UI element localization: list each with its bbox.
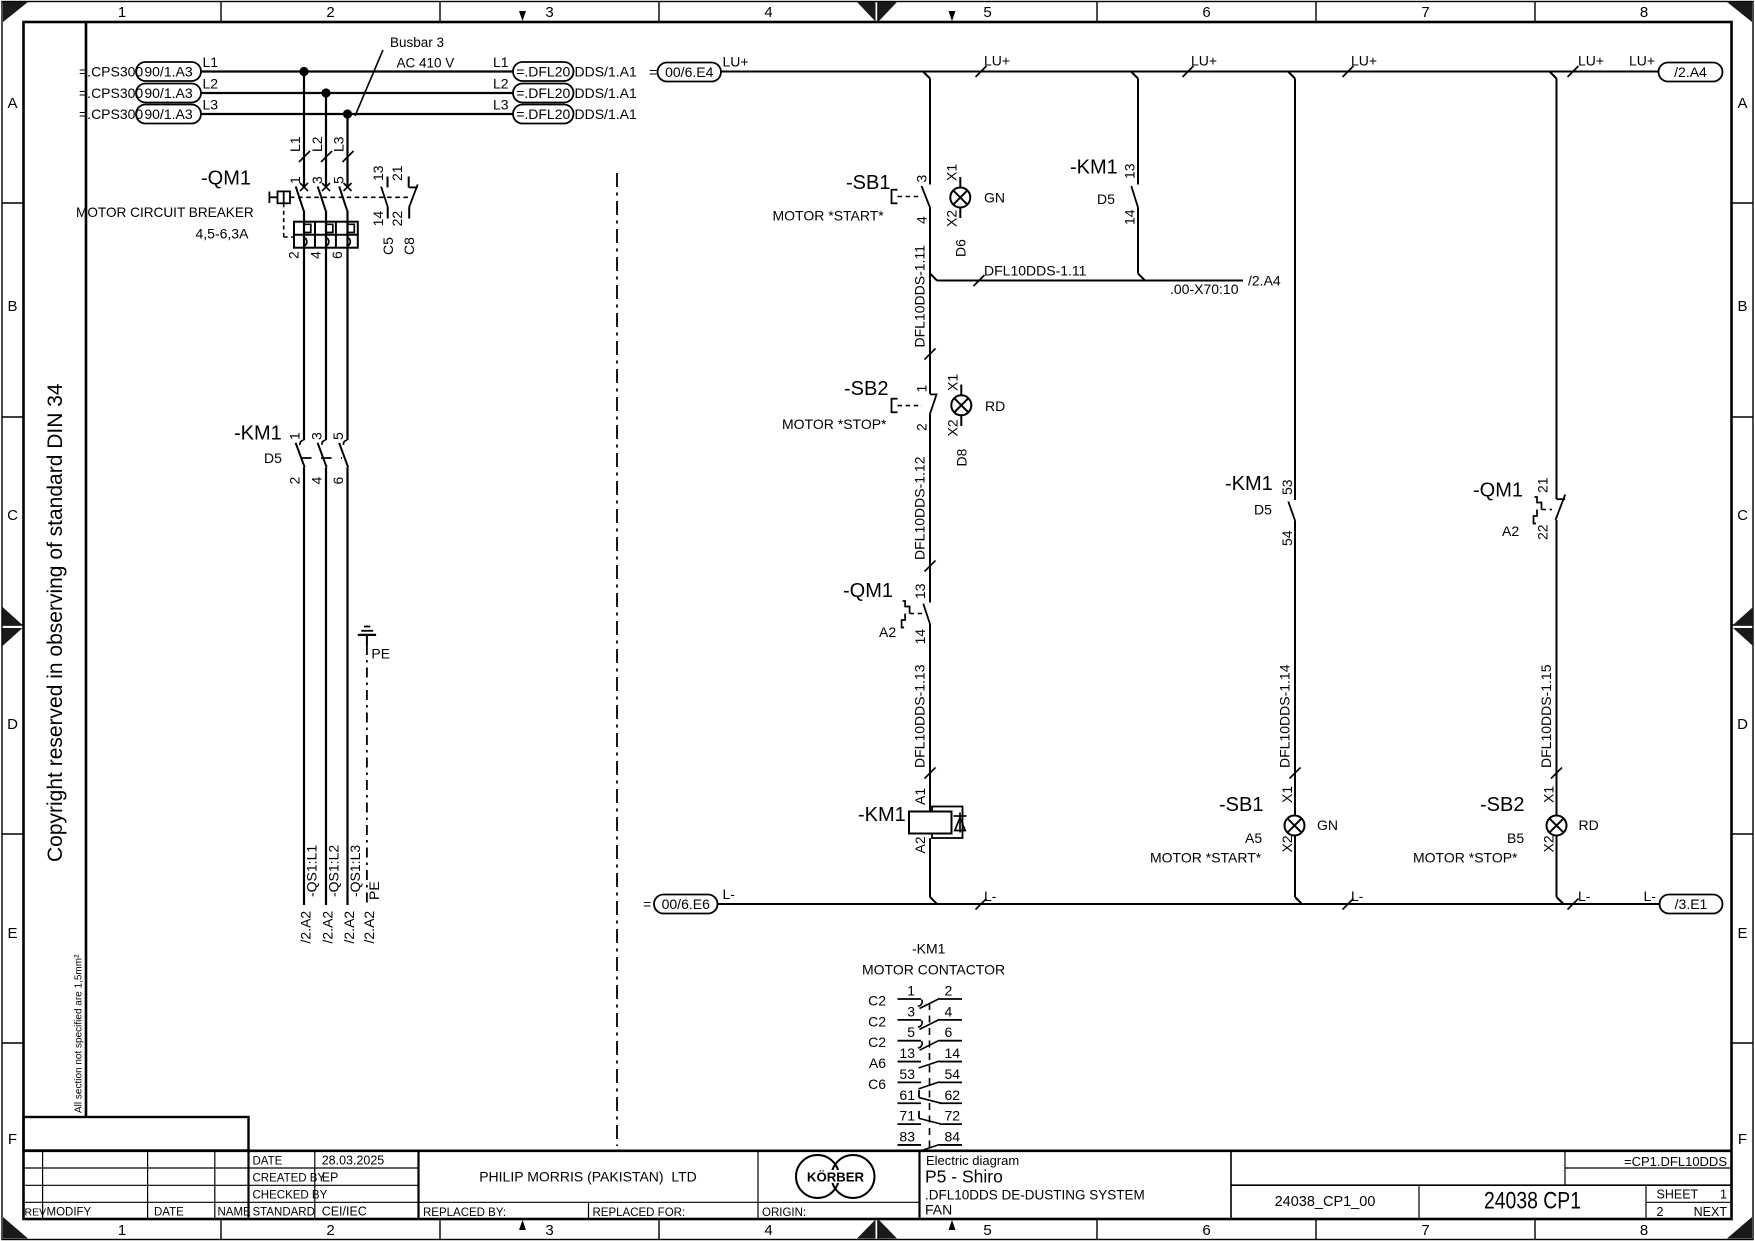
svg-text:L1: L1 bbox=[493, 54, 509, 70]
svg-text:6: 6 bbox=[945, 1024, 953, 1040]
wire DFL10DDS-1.13 rail segment bbox=[912, 624, 936, 812]
svg-text:21: 21 bbox=[1535, 477, 1551, 493]
svg-text:PE: PE bbox=[371, 646, 390, 662]
PE earth symbol bbox=[358, 627, 390, 944]
svg-text:L-: L- bbox=[984, 888, 997, 904]
svg-text:X1: X1 bbox=[944, 164, 960, 181]
svg-text:C2: C2 bbox=[868, 993, 886, 1009]
KM1 main contact 5-6 bbox=[330, 248, 348, 905]
svg-text:8: 8 bbox=[1640, 4, 1648, 21]
svg-text:DFL10DDS-1.12: DFL10DDS-1.12 bbox=[912, 456, 928, 560]
svg-text:54: 54 bbox=[1279, 530, 1295, 546]
svg-text:X2: X2 bbox=[944, 210, 960, 227]
svg-text:X2: X2 bbox=[1541, 835, 1557, 852]
motor circuit breaker QM1 labels bbox=[76, 168, 254, 242]
QM1 pole 3-4 bbox=[308, 176, 331, 259]
svg-text:D5: D5 bbox=[264, 450, 282, 466]
svg-text:14: 14 bbox=[1122, 209, 1138, 225]
svg-text:6: 6 bbox=[329, 251, 345, 259]
svg-text:STANDARD: STANDARD bbox=[253, 1206, 315, 1218]
svg-text:-QM1: -QM1 bbox=[1473, 480, 1523, 502]
svg-text:MOTOR *STOP*: MOTOR *STOP* bbox=[1413, 850, 1518, 866]
svg-text:L-: L- bbox=[1578, 888, 1591, 904]
outgoing reference =.DFL20DDS/1.A1 L3 bbox=[493, 97, 637, 124]
QM1 aux contact 13-14 (control) bbox=[843, 580, 930, 645]
svg-text:DDS/1.A1: DDS/1.A1 bbox=[575, 85, 637, 101]
svg-text:4: 4 bbox=[914, 216, 930, 224]
svg-text:53: 53 bbox=[1279, 479, 1295, 495]
svg-text:MOTOR CONTACTOR: MOTOR CONTACTOR bbox=[862, 962, 1005, 978]
svg-text:-SB2: -SB2 bbox=[844, 378, 888, 400]
destination reference /3.E1 bbox=[1660, 895, 1723, 914]
svg-text:83: 83 bbox=[899, 1128, 915, 1144]
svg-text:Busbar 3: Busbar 3 bbox=[390, 35, 444, 50]
svg-text:2: 2 bbox=[945, 983, 953, 999]
svg-text:53: 53 bbox=[899, 1066, 915, 1082]
svg-text:EP: EP bbox=[322, 1171, 339, 1185]
svg-text:PE: PE bbox=[366, 881, 382, 900]
svg-text:L-: L- bbox=[723, 886, 736, 902]
svg-text:90/1.A3: 90/1.A3 bbox=[144, 85, 192, 101]
svg-text:A2: A2 bbox=[1502, 523, 1519, 539]
svg-text:24038 CP1: 24038 CP1 bbox=[1484, 1188, 1581, 1215]
svg-text:CREATED BY: CREATED BY bbox=[253, 1173, 326, 1185]
busbar group leader bbox=[355, 35, 454, 116]
copyright side text bbox=[24, 22, 249, 1151]
terminal label -QS1:L3 bbox=[341, 845, 363, 944]
svg-text:2: 2 bbox=[914, 423, 930, 431]
svg-text:L2: L2 bbox=[493, 76, 509, 92]
svg-text:=.CPS300: =.CPS300 bbox=[79, 106, 143, 122]
wire phase L3 drop bbox=[331, 114, 354, 186]
svg-text:MOTOR *START*: MOTOR *START* bbox=[773, 208, 885, 224]
svg-text:/2.A4: /2.A4 bbox=[1674, 64, 1707, 80]
svg-text:C2: C2 bbox=[868, 1013, 886, 1029]
svg-text:13: 13 bbox=[370, 165, 386, 181]
svg-text:C: C bbox=[1737, 507, 1748, 524]
svg-text:=CP1.DFL10DDS: =CP1.DFL10DDS bbox=[1624, 1154, 1727, 1169]
svg-text:DDS/1.A1: DDS/1.A1 bbox=[575, 64, 637, 80]
svg-text:4: 4 bbox=[764, 4, 772, 21]
svg-text:B5: B5 bbox=[1507, 830, 1524, 846]
svg-text:=.CPS300: =.CPS300 bbox=[79, 64, 143, 80]
svg-text:-KM1: -KM1 bbox=[1070, 157, 1118, 179]
terminal label -QS1:L2 bbox=[319, 845, 341, 944]
svg-text:L-: L- bbox=[1351, 888, 1364, 904]
feeder reference =.CPS300 L1 bbox=[79, 54, 218, 81]
wire DFL10DDS-1.12 rail segment bbox=[912, 414, 936, 602]
svg-text:7: 7 bbox=[1421, 1222, 1429, 1239]
svg-text:3: 3 bbox=[914, 175, 930, 183]
svg-text:DFL10DDS-1.14: DFL10DDS-1.14 bbox=[1277, 664, 1293, 768]
feeder reference =.CPS300 L3 bbox=[79, 97, 218, 124]
svg-text:5: 5 bbox=[330, 432, 346, 440]
svg-text:LU+: LU+ bbox=[1578, 53, 1604, 69]
svg-text:=.DFL20: =.DFL20 bbox=[516, 106, 570, 122]
svg-text:-QM1: -QM1 bbox=[843, 580, 893, 602]
svg-text:L2: L2 bbox=[203, 76, 219, 92]
svg-text:-QS1:L3: -QS1:L3 bbox=[347, 845, 363, 897]
svg-text:4: 4 bbox=[309, 477, 325, 485]
supply reference 00/6.E4 bbox=[649, 54, 749, 82]
svg-text:=.CPS300: =.CPS300 bbox=[79, 85, 143, 101]
svg-text:X1: X1 bbox=[1279, 786, 1295, 803]
svg-text:4: 4 bbox=[764, 1222, 772, 1239]
svg-text:F: F bbox=[8, 1131, 17, 1148]
svg-text:LU+: LU+ bbox=[1191, 53, 1217, 69]
svg-text:L1: L1 bbox=[287, 136, 303, 152]
title block bbox=[24, 1151, 1732, 1219]
terminal label -QS1:L1 bbox=[297, 845, 319, 944]
svg-text:72: 72 bbox=[945, 1108, 961, 1124]
KM1 main contact 3-4 bbox=[309, 248, 327, 905]
wire rail 3 top bbox=[1288, 72, 1295, 501]
svg-text:C6: C6 bbox=[868, 1076, 886, 1092]
outgoing reference =.DFL20DDS/1.A1 L2 bbox=[493, 76, 637, 103]
svg-text:L3: L3 bbox=[331, 136, 347, 152]
svg-text:-SB1: -SB1 bbox=[846, 172, 890, 194]
svg-text:FAN: FAN bbox=[925, 1202, 952, 1218]
svg-text:1: 1 bbox=[118, 1222, 126, 1239]
wire DFL10DDS-1.11 horizontal bbox=[930, 263, 1281, 298]
svg-text:X2: X2 bbox=[945, 419, 961, 436]
svg-text:5: 5 bbox=[907, 1024, 915, 1040]
node dot L3 bbox=[343, 109, 352, 118]
svg-text:-KM1: -KM1 bbox=[1225, 473, 1273, 495]
svg-text:MOTOR CIRCUIT BREAKER: MOTOR CIRCUIT BREAKER bbox=[76, 205, 254, 220]
svg-text:-SB1: -SB1 bbox=[1219, 794, 1263, 816]
svg-text:-QM1: -QM1 bbox=[201, 168, 251, 190]
svg-text:2: 2 bbox=[286, 251, 302, 259]
svg-text:8: 8 bbox=[1640, 1222, 1648, 1239]
svg-text:5: 5 bbox=[983, 4, 991, 21]
svg-text:RD: RD bbox=[1579, 817, 1599, 833]
svg-text:L-: L- bbox=[1644, 888, 1657, 904]
wire phase L1 drop bbox=[287, 72, 310, 187]
svg-text:13: 13 bbox=[899, 1045, 915, 1061]
svg-text:A: A bbox=[7, 95, 17, 112]
svg-text:L3: L3 bbox=[493, 97, 509, 113]
wire DFL10DDS-1.15 rail segment bbox=[1538, 520, 1562, 816]
QM1 aux contact 13-14 bbox=[370, 165, 396, 255]
outgoing reference =.DFL20DDS/1.A1 L1 bbox=[493, 54, 637, 81]
svg-text:7: 7 bbox=[1421, 4, 1429, 21]
svg-text:71: 71 bbox=[899, 1108, 915, 1124]
svg-text:CEI/IEC: CEI/IEC bbox=[322, 1204, 367, 1218]
svg-text:21: 21 bbox=[389, 165, 405, 181]
svg-text:Copyright reserved in observin: Copyright reserved in observing of stand… bbox=[44, 383, 67, 862]
svg-text:00/6.E4: 00/6.E4 bbox=[665, 64, 713, 80]
svg-text:=.DFL20: =.DFL20 bbox=[516, 64, 570, 80]
svg-text:D5: D5 bbox=[1254, 502, 1272, 518]
svg-text:B: B bbox=[1737, 298, 1747, 315]
svg-text:LU+: LU+ bbox=[723, 54, 749, 70]
svg-text:DFL10DDS-1.11: DFL10DDS-1.11 bbox=[912, 245, 928, 348]
svg-text:NAME: NAME bbox=[218, 1206, 252, 1218]
svg-text:2: 2 bbox=[326, 1222, 334, 1239]
wire rail 1 top bbox=[923, 72, 930, 185]
wire LU+ bbox=[721, 53, 1659, 78]
svg-text:C2: C2 bbox=[868, 1034, 886, 1050]
QM1 pole 1-2 bbox=[286, 176, 309, 259]
svg-text:/2.A2: /2.A2 bbox=[319, 911, 335, 944]
svg-text:2: 2 bbox=[1657, 1205, 1664, 1219]
svg-text:REPLACED BY:: REPLACED BY: bbox=[423, 1207, 506, 1219]
svg-text:2: 2 bbox=[326, 4, 334, 21]
svg-text:AC 410 V: AC 410 V bbox=[397, 56, 455, 71]
svg-text:/2.A2: /2.A2 bbox=[297, 911, 313, 944]
svg-text:F: F bbox=[1738, 1131, 1747, 1148]
svg-text:NEXT: NEXT bbox=[1694, 1205, 1728, 1219]
svg-text:-KM1: -KM1 bbox=[912, 941, 946, 957]
svg-text:3: 3 bbox=[907, 1003, 915, 1019]
svg-text:DATE: DATE bbox=[154, 1206, 184, 1218]
svg-text:/3.E1: /3.E1 bbox=[1675, 896, 1708, 912]
svg-text:-QS1:L2: -QS1:L2 bbox=[325, 845, 341, 897]
indicator lamp RD at SB2 bbox=[945, 374, 1006, 467]
title block right bbox=[920, 1151, 1732, 1219]
svg-text:L3: L3 bbox=[203, 97, 219, 113]
svg-text:A2: A2 bbox=[912, 836, 928, 853]
indicator lamp SB1 GN bbox=[1150, 786, 1338, 897]
svg-text:22: 22 bbox=[389, 211, 405, 227]
svg-text:KÖRBER: KÖRBER bbox=[807, 1170, 865, 1185]
svg-text:00/6.E6: 00/6.E6 bbox=[662, 896, 710, 912]
svg-text:MOTOR *STOP*: MOTOR *STOP* bbox=[782, 416, 887, 432]
svg-text:/2.A2: /2.A2 bbox=[341, 911, 357, 944]
svg-text:DFL10DDS-1.15: DFL10DDS-1.15 bbox=[1538, 664, 1554, 768]
svg-text:GN: GN bbox=[984, 190, 1005, 206]
svg-text:4: 4 bbox=[308, 251, 324, 259]
svg-text:LU+: LU+ bbox=[1351, 53, 1377, 69]
contactor coil KM1 bbox=[858, 788, 967, 897]
wire DFL10DDS-1.11 rail segment bbox=[912, 208, 936, 395]
svg-text:90/1.A3: 90/1.A3 bbox=[144, 64, 192, 80]
svg-text:B: B bbox=[7, 298, 17, 315]
svg-text:13: 13 bbox=[1122, 163, 1138, 179]
svg-text:6: 6 bbox=[330, 477, 346, 485]
svg-text:1: 1 bbox=[287, 432, 303, 440]
svg-text:62: 62 bbox=[945, 1087, 961, 1103]
svg-text:CHECKED BY: CHECKED BY bbox=[253, 1190, 328, 1202]
svg-text:ORIGIN:: ORIGIN: bbox=[762, 1207, 806, 1219]
svg-text:X1: X1 bbox=[1541, 786, 1557, 803]
svg-text:MOTOR *START*: MOTOR *START* bbox=[1150, 850, 1262, 866]
wire phase L2 drop bbox=[309, 93, 332, 186]
svg-text:MODIFY: MODIFY bbox=[47, 1206, 92, 1218]
svg-text:A5: A5 bbox=[1245, 830, 1262, 846]
svg-text:1: 1 bbox=[118, 4, 126, 21]
svg-text:L1: L1 bbox=[203, 54, 219, 70]
svg-text:A2: A2 bbox=[879, 624, 896, 640]
QM1 aux contact 21-22 bbox=[389, 165, 418, 255]
svg-text:PHILIP MORRIS (PAKISTAN) LTD: PHILIP MORRIS (PAKISTAN) LTD bbox=[479, 1169, 697, 1185]
svg-text:4,5-6,3A: 4,5-6,3A bbox=[196, 226, 250, 242]
svg-text:84: 84 bbox=[945, 1128, 961, 1144]
KM1 mechanical link dashes bbox=[301, 457, 342, 459]
svg-text:C5: C5 bbox=[380, 237, 396, 255]
svg-text:DFL10DDS-1.11: DFL10DDS-1.11 bbox=[984, 263, 1087, 279]
svg-text:14: 14 bbox=[945, 1045, 961, 1061]
svg-text:REPLACED FOR:: REPLACED FOR: bbox=[593, 1207, 686, 1219]
svg-text:3: 3 bbox=[545, 1222, 553, 1239]
svg-text:-KM1: -KM1 bbox=[234, 423, 282, 445]
svg-text:14: 14 bbox=[912, 629, 928, 645]
svg-text:6: 6 bbox=[1202, 1222, 1210, 1239]
node dot L2 bbox=[321, 88, 330, 97]
KM1 aux contact 53-54 bbox=[1225, 473, 1295, 546]
svg-text:A6: A6 bbox=[869, 1055, 886, 1071]
svg-text:LU+: LU+ bbox=[984, 53, 1010, 69]
svg-text:C: C bbox=[7, 507, 18, 524]
wire rail 2 bbox=[1131, 72, 1138, 185]
busbar wire L3 bbox=[201, 113, 513, 115]
svg-text:.DFL10DDS DE-DUSTING SYSTEM: .DFL10DDS DE-DUSTING SYSTEM bbox=[925, 1188, 1145, 1203]
supply reference 00/6.E6 bbox=[643, 886, 735, 914]
svg-text:DATE: DATE bbox=[253, 1155, 283, 1167]
svg-text:5: 5 bbox=[983, 1222, 991, 1239]
contactor KM1 main contacts labels bbox=[234, 423, 282, 467]
indicator lamp GN at SB1 bbox=[944, 164, 1005, 257]
svg-text:E: E bbox=[1737, 925, 1747, 942]
svg-text:P5 - Shiro: P5 - Shiro bbox=[925, 1167, 1003, 1187]
wire DFL10DDS-1.14 rail segment bbox=[1277, 521, 1301, 816]
svg-text:24038_CP1_00: 24038_CP1_00 bbox=[1275, 1194, 1376, 1210]
busbar wire L1 bbox=[201, 70, 513, 72]
svg-text:X1: X1 bbox=[945, 374, 961, 391]
svg-text:E: E bbox=[7, 925, 17, 942]
svg-text:C8: C8 bbox=[401, 237, 417, 255]
svg-text:D8: D8 bbox=[954, 448, 970, 466]
svg-text:/2.A2: /2.A2 bbox=[361, 911, 377, 944]
svg-text:61: 61 bbox=[899, 1087, 915, 1103]
busbar wire L2 bbox=[201, 92, 513, 94]
destination reference /2.A4 bbox=[1659, 63, 1723, 82]
svg-text:54: 54 bbox=[945, 1066, 961, 1082]
svg-text:=: = bbox=[643, 896, 651, 912]
svg-text:RD: RD bbox=[985, 398, 1005, 414]
svg-text:1: 1 bbox=[907, 983, 915, 999]
svg-text:28.03.2025: 28.03.2025 bbox=[322, 1153, 385, 1167]
svg-text:DFL10DDS-1.13: DFL10DDS-1.13 bbox=[912, 664, 928, 768]
svg-text:SHEET: SHEET bbox=[1657, 1188, 1699, 1202]
section separator line bbox=[616, 173, 618, 1146]
QM1 pole 5-6 bbox=[329, 176, 352, 259]
feeder reference =.CPS300 L2 bbox=[79, 76, 218, 103]
contactor KM1 contact table bbox=[862, 941, 1005, 1152]
QM1 test button bbox=[269, 191, 409, 237]
wire rail 4 top bbox=[1550, 72, 1557, 500]
svg-text:=.DFL20: =.DFL20 bbox=[516, 85, 570, 101]
QM1 aux contact 21-22 (control) bbox=[1473, 477, 1565, 540]
KM1 main contact 1-2 bbox=[287, 248, 305, 905]
svg-text:All section not specified are: All section not specified are 1,5mm² bbox=[74, 954, 85, 1113]
svg-text:1: 1 bbox=[914, 385, 930, 393]
svg-text:D5: D5 bbox=[1097, 191, 1115, 207]
svg-text:GN: GN bbox=[1317, 817, 1338, 833]
svg-text:LU+: LU+ bbox=[1629, 53, 1655, 69]
KM1 aux contact 13-14 (seal-in) bbox=[1070, 157, 1138, 274]
node dot L1 bbox=[299, 67, 308, 76]
QM1 thermal overload block bbox=[294, 222, 358, 248]
svg-text:A1: A1 bbox=[912, 788, 928, 805]
svg-text:X2: X2 bbox=[1279, 835, 1295, 852]
pushbutton SB2 MOTOR STOP (NC contact 1-2) bbox=[782, 378, 938, 432]
svg-text:22: 22 bbox=[1535, 524, 1551, 540]
pushbutton SB1 MOTOR START (NO contact 3-4) bbox=[773, 172, 931, 224]
svg-text:-SB2: -SB2 bbox=[1480, 794, 1524, 816]
svg-text:A: A bbox=[1737, 95, 1747, 112]
Koerber logo bbox=[796, 1155, 875, 1198]
svg-text:3: 3 bbox=[309, 432, 325, 440]
svg-text:D6: D6 bbox=[953, 239, 969, 257]
svg-text:2: 2 bbox=[287, 477, 303, 485]
svg-text:/2.A4: /2.A4 bbox=[1248, 273, 1281, 289]
svg-text:REV: REV bbox=[25, 1206, 47, 1218]
svg-text:.00-X70:10: .00-X70:10 bbox=[1170, 281, 1239, 297]
svg-text:-QS1:L1: -QS1:L1 bbox=[303, 845, 319, 897]
svg-text:L2: L2 bbox=[309, 136, 325, 152]
indicator lamp SB2 RD bbox=[1413, 786, 1599, 897]
svg-text:D: D bbox=[1737, 716, 1748, 733]
svg-text:1: 1 bbox=[1720, 1188, 1727, 1202]
svg-text:90/1.A3: 90/1.A3 bbox=[144, 106, 192, 122]
svg-text:14: 14 bbox=[370, 211, 386, 227]
svg-text:D: D bbox=[7, 716, 18, 733]
svg-text:=: = bbox=[649, 64, 657, 80]
svg-text:DDS/1.A1: DDS/1.A1 bbox=[575, 106, 637, 122]
svg-text:6: 6 bbox=[1202, 4, 1210, 21]
svg-text:3: 3 bbox=[545, 4, 553, 21]
svg-text:4: 4 bbox=[945, 1003, 953, 1019]
wire L- bbox=[718, 888, 1660, 910]
svg-text:-KM1: -KM1 bbox=[858, 804, 906, 826]
svg-text:13: 13 bbox=[912, 583, 928, 599]
